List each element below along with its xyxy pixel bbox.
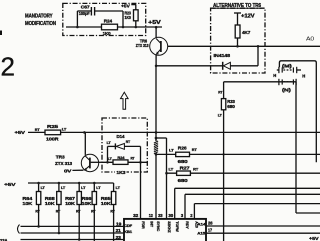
svg-text:RT: RT [193, 167, 199, 171]
svg-text:TOFW: TOFW [175, 221, 179, 232]
svg-text:R25: R25 [47, 124, 59, 129]
svg-text:R24: R24 [104, 19, 113, 24]
svg-text:SYNC: SYNC [156, 221, 160, 231]
svg-text:A15: A15 [197, 230, 206, 235]
svg-text:H: H [273, 73, 276, 78]
svg-text:ZTX 313: ZTX 313 [136, 43, 149, 48]
svg-text:ZTX 313: ZTX 313 [55, 161, 73, 166]
svg-text:(N): (N) [282, 87, 292, 92]
svg-text:R65: R65 [101, 196, 111, 201]
svg-text:RT: RT [56, 210, 61, 214]
svg-text:H: H [302, 74, 305, 79]
svg-text:R68: R68 [45, 196, 55, 201]
svg-text:12: 12 [149, 213, 154, 218]
svg-text:KB1: KB1 [124, 230, 132, 234]
svg-text:100pF: 100pF [79, 11, 90, 16]
svg-text:10K: 10K [22, 201, 33, 206]
svg-text:R66: R66 [82, 196, 92, 201]
svg-text:IN4148: IN4148 [214, 53, 231, 58]
svg-text:TR3: TR3 [56, 154, 65, 159]
svg-text:1K0: 1K0 [103, 31, 112, 36]
svg-text:680: 680 [227, 104, 235, 109]
svg-text:10K: 10K [45, 201, 56, 206]
svg-text:MODIFICATION: MODIFICATION [25, 21, 56, 27]
svg-text:19: 19 [116, 222, 122, 227]
svg-text:26: 26 [208, 221, 213, 226]
svg-text:21: 21 [116, 228, 122, 233]
svg-text:100R: 100R [46, 137, 59, 142]
svg-text:FDR: FDR [141, 221, 145, 229]
svg-text:32KHZ: 32KHZ [167, 221, 171, 233]
svg-text:17: 17 [208, 228, 213, 233]
svg-text:RT: RT [192, 148, 198, 152]
svg-text:10K: 10K [82, 201, 93, 206]
svg-text:RDY: RDY [185, 221, 189, 229]
svg-text:+12V: +12V [241, 13, 255, 19]
svg-text:CDF: CDF [124, 224, 133, 228]
svg-text:RT: RT [35, 210, 40, 214]
svg-text:23: 23 [116, 235, 122, 240]
svg-text:33: 33 [158, 213, 163, 218]
svg-text:+5V: +5V [15, 130, 27, 136]
svg-text:+5V: +5V [121, 3, 130, 8]
svg-text:RT: RT [35, 128, 41, 132]
svg-text:RT: RT [218, 91, 223, 95]
svg-text:R27: R27 [180, 165, 191, 170]
svg-text:MANDATORY: MANDATORY [25, 14, 53, 20]
svg-text:R67: R67 [65, 196, 75, 201]
svg-text:ALTERNATIVE TO TR6: ALTERNATIVE TO TR6 [213, 3, 261, 9]
svg-text:+5V: +5V [309, 236, 320, 241]
svg-text:30: 30 [168, 213, 173, 218]
svg-text:10K: 10K [101, 201, 112, 206]
svg-text:680: 680 [178, 178, 189, 183]
svg-text:RT: RT [76, 210, 81, 214]
svg-text:A0: A0 [306, 36, 314, 42]
svg-text:+5V: +5V [148, 20, 162, 26]
svg-text:RT: RT [91, 210, 96, 214]
svg-text:1K3: 1K3 [116, 170, 126, 175]
svg-text:32: 32 [133, 213, 139, 218]
svg-text:4K7: 4K7 [242, 30, 251, 35]
svg-text:+5V: +5V [4, 182, 17, 188]
svg-text:1K0: 1K0 [125, 15, 132, 20]
svg-text:2: 2 [1, 52, 15, 82]
svg-text:INT: INT [149, 221, 153, 227]
svg-text:D14: D14 [117, 134, 126, 139]
svg-text:R64: R64 [22, 196, 32, 201]
svg-text:C67: C67 [81, 5, 91, 10]
svg-text:A13: A13 [195, 221, 199, 228]
svg-text:680: 680 [178, 159, 189, 164]
svg-text:(M): (M) [282, 63, 293, 68]
svg-text:R24: R24 [117, 155, 125, 160]
svg-text:10K: 10K [65, 201, 76, 206]
svg-text:RT: RT [110, 210, 115, 214]
svg-text:R26: R26 [178, 146, 187, 151]
